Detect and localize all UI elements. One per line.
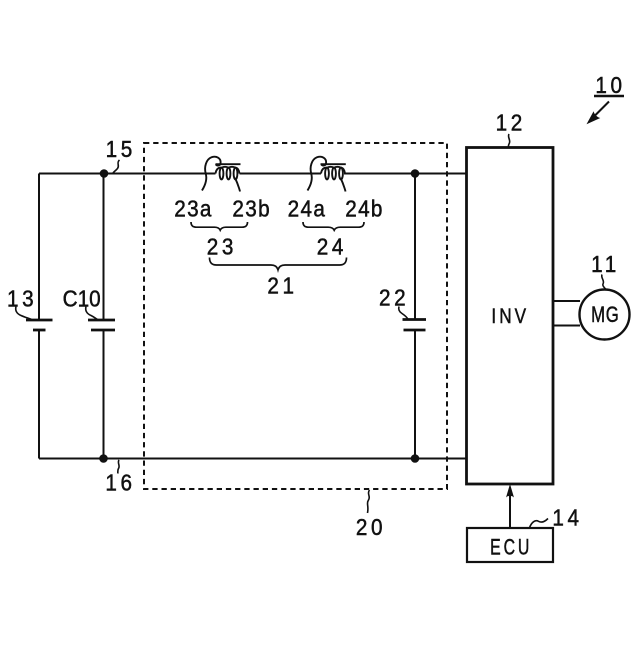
svg-text:C10: C10	[63, 286, 101, 312]
svg-text:12: 12	[496, 109, 526, 135]
svg-text:16: 16	[105, 469, 135, 495]
svg-text:20: 20	[356, 514, 386, 540]
svg-text:ECU: ECU	[490, 536, 532, 560]
svg-text:23a: 23a	[174, 196, 213, 222]
svg-text:10: 10	[595, 72, 625, 98]
svg-text:22: 22	[379, 284, 409, 310]
svg-text:13: 13	[7, 285, 37, 311]
svg-text:23: 23	[207, 233, 237, 259]
svg-text:24: 24	[317, 233, 347, 259]
svg-text:15: 15	[106, 136, 136, 162]
svg-text:INV: INV	[491, 304, 529, 328]
svg-text:MG: MG	[591, 303, 619, 328]
svg-text:14: 14	[552, 504, 582, 530]
svg-text:11: 11	[591, 251, 620, 277]
svg-text:21: 21	[267, 272, 297, 298]
svg-text:24b: 24b	[345, 196, 384, 222]
svg-text:23b: 23b	[232, 196, 271, 222]
svg-text:24a: 24a	[288, 196, 327, 222]
